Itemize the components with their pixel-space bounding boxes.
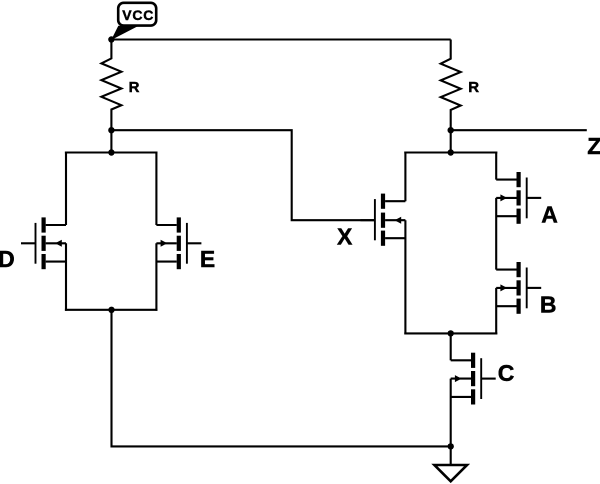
transistor E: [156, 217, 201, 269]
wire right group top rail: [404, 151, 497, 153]
resistor R1 (left pull-up): [101, 40, 121, 131]
ground: [434, 446, 467, 481]
VCC flag pointer: [111, 26, 137, 40]
transistor D: [21, 217, 66, 269]
svg-text:E: E: [200, 246, 215, 272]
wire right edge (A/B series branch): [495, 152, 497, 335]
svg-text:C: C: [498, 360, 515, 386]
svg-text:D: D: [0, 246, 15, 272]
node left pair bottom: [108, 307, 114, 313]
wire right group bottom rail: [404, 332, 497, 334]
wire C source to ground rail: [450, 379, 452, 447]
transistor X: [360, 194, 405, 246]
wire Z output: [451, 129, 587, 131]
node VCC junction: [108, 36, 114, 42]
svg-text:R: R: [468, 79, 479, 96]
wire left pair top rail: [65, 151, 158, 153]
wire left node down to left pair: [110, 130, 112, 152]
node Z junction: [448, 127, 454, 133]
wire top VCC rail: [111, 38, 450, 40]
wire left edge (D drain/source connections): [65, 152, 67, 311]
svg-text:X: X: [337, 224, 353, 250]
wire bottom return rail: [112, 310, 451, 447]
node right group top: [448, 149, 454, 155]
wire left edge (X drain/source connections): [404, 152, 406, 335]
wire left pair bottom rail: [65, 309, 158, 311]
transistor C: [451, 353, 496, 405]
VCC label box: [118, 3, 156, 26]
node left pair top: [108, 149, 114, 155]
svg-text:A: A: [541, 201, 558, 227]
wire left node to X gate: [111, 130, 375, 220]
svg-text:Z: Z: [587, 133, 600, 159]
wire right edge (E drain/source connections): [155, 152, 157, 311]
node left drain junction: [108, 127, 114, 133]
wire Z node down to right group: [450, 130, 452, 152]
wire right group bottom to C drain: [450, 333, 452, 360]
transistor B: [496, 262, 541, 314]
node ground junction: [448, 443, 454, 449]
transistor A: [496, 172, 541, 224]
node right group bottom: [448, 330, 454, 336]
svg-text:VCC: VCC: [122, 7, 154, 23]
resistor R2 (right pull-up): [441, 40, 461, 131]
svg-text:R: R: [129, 79, 140, 96]
svg-text:B: B: [540, 291, 557, 317]
